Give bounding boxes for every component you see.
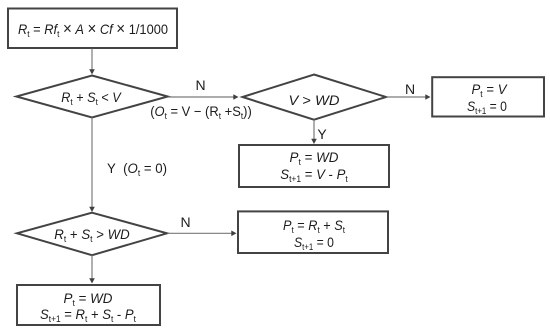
label N (D2 to R2)	[405, 82, 415, 96]
process box R1 (Rt = Rft x A x Cf x 1/1000)	[8, 9, 177, 49]
wire: D3 to box R5	[89, 255, 95, 283]
wire: R1 to decision D1	[89, 49, 95, 75]
text R5 line 1: Pt = WD	[63, 291, 112, 310]
text D3: Rt + St > WD	[54, 227, 129, 246]
text R2 line 2: St+1 = 0	[467, 99, 507, 118]
process box R2 (Pt = V ; St+1 = 0)	[432, 77, 544, 116]
text R4 line 1: Pt = Rt + St	[282, 218, 344, 237]
label (Ot = V - (Rt + St))	[150, 104, 252, 123]
wire N: D1 to decision D2	[169, 94, 239, 100]
text R2 line 1: Pt = V	[471, 82, 506, 101]
decision diamond D3 (Rt + St > WD)	[17, 213, 167, 256]
wire N: D2 to box R2	[387, 94, 431, 100]
label N (D3 to R4)	[180, 215, 190, 229]
wire Y: D1 to decision D3	[89, 118, 95, 213]
text R3 line 2: St+1 = V - Pt	[280, 167, 347, 186]
text D1: Rt + St < V	[62, 90, 121, 109]
process box R3 (Pt = WD ; St+1 = V - Pt)	[239, 145, 389, 187]
label Y (Ot = 0)	[107, 161, 167, 180]
wire Y: D2 to box R3	[311, 120, 317, 144]
text R3 line 1: Pt = WD	[290, 150, 339, 169]
label N (D1 to D2)	[195, 78, 205, 92]
process box R4 (Pt = Rt + St ; St+1 = 0)	[238, 211, 388, 253]
text D2: V > WD	[288, 93, 339, 107]
label Y (D2 to R3)	[317, 127, 326, 141]
decision diamond D1 (Rt + St < V)	[16, 76, 167, 118]
text R5 line 2: St+1 = Rt + St - Pt	[40, 307, 136, 326]
process box R5 (Pt = WD ; St+1 = Rt + St - Pt)	[17, 285, 160, 325]
wire N: D3 to box R4	[168, 231, 237, 237]
text R1: Rt = Rft x A x Cf x 1/1000	[18, 22, 168, 41]
decision diamond D2 (V > WD)	[243, 75, 387, 120]
text R4 line 2: St+1 = 0	[294, 235, 334, 254]
